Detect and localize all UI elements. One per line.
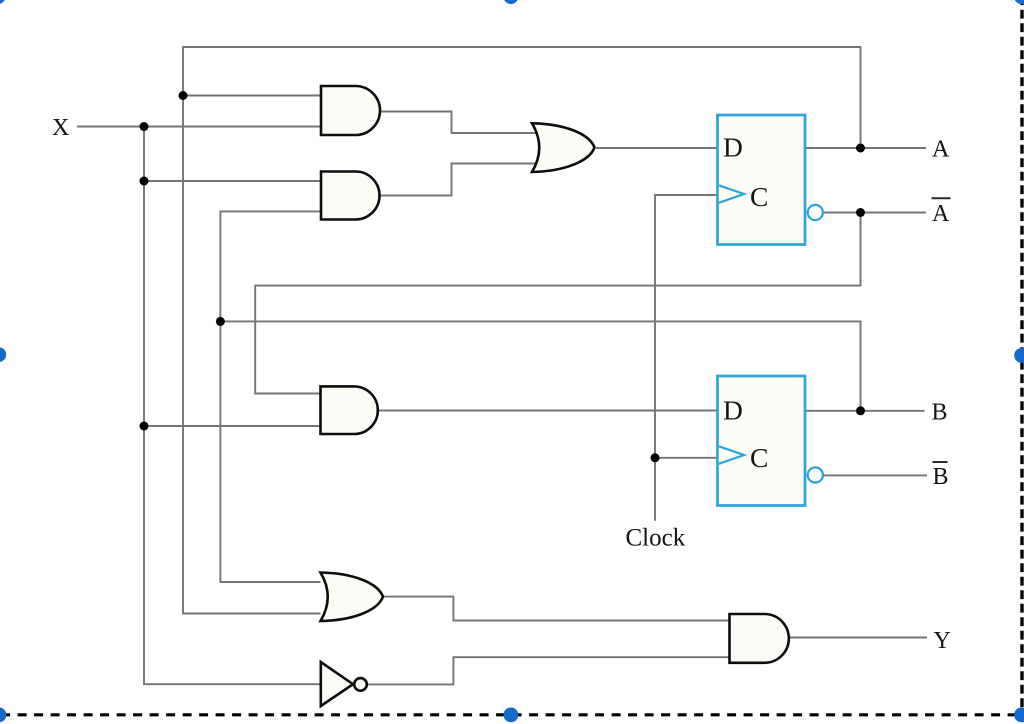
svg-text:D: D [723, 131, 743, 162]
svg-text:Clock: Clock [626, 525, 686, 552]
svg-text:X: X [52, 115, 69, 141]
svg-text:B: B [933, 464, 949, 490]
svg-text:D: D [723, 394, 743, 425]
svg-text:Y: Y [934, 628, 951, 654]
svg-text:A: A [932, 136, 950, 162]
svg-text:C: C [750, 442, 768, 473]
svg-text:B: B [932, 400, 948, 426]
svg-text:C: C [750, 181, 768, 212]
svg-text:A: A [932, 201, 950, 227]
